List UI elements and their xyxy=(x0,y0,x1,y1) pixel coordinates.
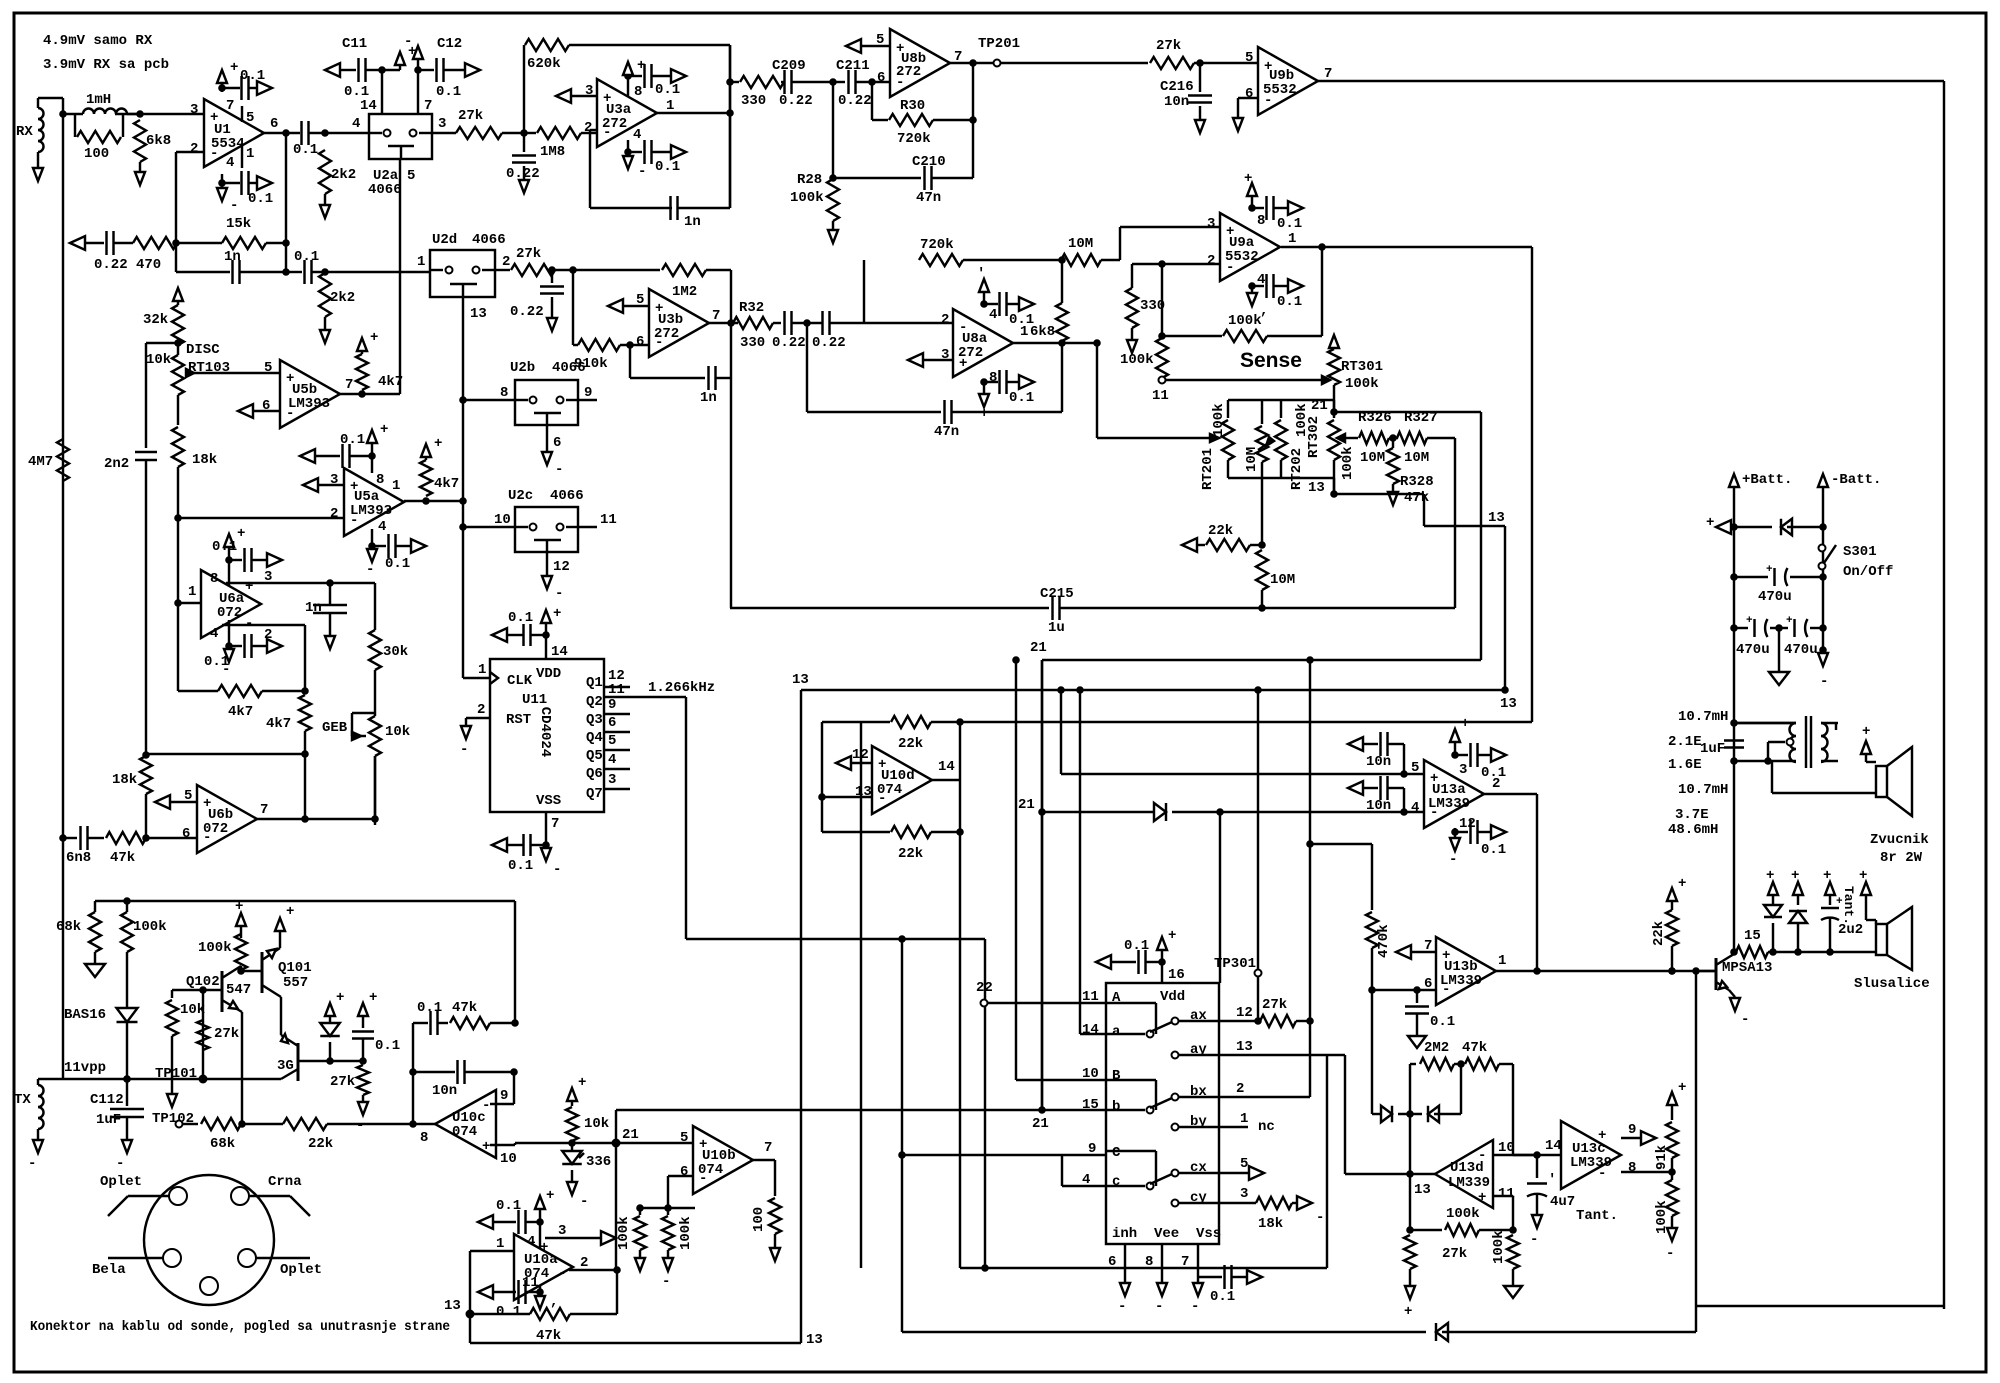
svg-text:+: + xyxy=(1478,1190,1486,1206)
TP102 label xyxy=(152,1111,194,1127)
rail y902 xyxy=(95,901,515,1023)
pin 1 out U13b xyxy=(1496,953,1716,971)
svg-text:-: - xyxy=(1118,1299,1126,1315)
svg-text:On/Off: On/Off xyxy=(1843,564,1893,580)
svg-text:R32: R32 xyxy=(739,300,764,316)
svg-text:47k: 47k xyxy=(536,1328,561,1344)
svg-text:BAS16: BAS16 xyxy=(64,1007,106,1023)
svg-text:+: + xyxy=(1706,515,1714,531)
svg-text:Tant.: Tant. xyxy=(1841,886,1856,925)
resistor 100k left xyxy=(121,897,167,1008)
svg-text:-: - xyxy=(553,862,561,878)
svg-text:+: + xyxy=(1168,928,1176,944)
node xyxy=(301,687,309,695)
svg-text:1n: 1n xyxy=(224,249,241,265)
resistor 15k xyxy=(222,216,286,249)
rail y1332 xyxy=(902,1331,1426,1333)
ground 0.1 U13b xyxy=(1408,1036,1426,1048)
svg-text:100k: 100k xyxy=(1345,376,1379,392)
U2b labels xyxy=(500,360,592,401)
svg-text:U2d: U2d xyxy=(432,232,457,248)
svg-text:GEB: GEB xyxy=(322,720,348,736)
node xyxy=(1457,1060,1465,1068)
cap 0.1 U8a bot xyxy=(984,370,1034,406)
svg-text:C216: C216 xyxy=(1160,79,1194,95)
svg-text:0.1: 0.1 xyxy=(655,82,680,98)
svg-text:1: 1 xyxy=(188,584,196,600)
svg-text:6: 6 xyxy=(636,334,644,350)
svg-text:+: + xyxy=(553,606,561,622)
svg-text:10n: 10n xyxy=(1366,798,1391,814)
U11 Q4 xyxy=(586,715,630,746)
svg-text:-: - xyxy=(460,742,468,758)
resistor R326 xyxy=(1358,410,1398,466)
svg-text:336: 336 xyxy=(586,1154,611,1170)
svg-text:8: 8 xyxy=(500,385,508,401)
svg-text:+: + xyxy=(434,436,442,452)
U2c ctl xyxy=(542,552,570,602)
svg-text:12: 12 xyxy=(1459,816,1476,832)
svg-text:22k: 22k xyxy=(898,846,923,862)
bus 21 down xyxy=(615,1143,617,1270)
resistor 27k U13d xyxy=(1404,1235,1467,1320)
U2a labels xyxy=(352,116,446,198)
svg-text:7: 7 xyxy=(1424,938,1432,954)
wire 2n2 branch xyxy=(146,343,178,448)
svg-text:+: + xyxy=(235,899,243,915)
U10c pin10 wire xyxy=(490,1143,517,1167)
svg-text:4M7: 4M7 xyxy=(28,454,53,470)
offpage arrow xyxy=(411,539,426,553)
svg-text:6: 6 xyxy=(877,70,885,86)
wire spk bottom xyxy=(1764,757,1876,793)
svg-text:470: 470 xyxy=(136,257,161,273)
power + C11 xyxy=(382,44,416,70)
svg-text:1u: 1u xyxy=(1048,620,1065,636)
node xyxy=(726,78,734,86)
svg-text:0.1: 0.1 xyxy=(1124,938,1149,954)
svg-text:68k: 68k xyxy=(210,1136,235,1152)
svg-text:B: B xyxy=(1112,1068,1121,1084)
svg-text:48.6mH: 48.6mH xyxy=(1668,822,1718,838)
wire xyxy=(1220,811,1404,813)
fb 1n U3b xyxy=(630,345,731,406)
op-amp U13a xyxy=(1424,760,1484,828)
resistor 27k ax xyxy=(1260,997,1310,1027)
node xyxy=(326,1057,334,1065)
svg-text:1mH: 1mH xyxy=(86,92,111,108)
label Tant rot xyxy=(1841,886,1856,925)
cap 0.1 U12 xyxy=(1096,938,1162,974)
cap 0.1 U1 top xyxy=(240,68,265,100)
resistor 10M xyxy=(1061,236,1120,266)
svg-text:1M8: 1M8 xyxy=(540,144,565,160)
pin 5 arrow U6b xyxy=(155,788,197,809)
pin 3 pwr U13a xyxy=(1450,716,1469,778)
svg-text:100k: 100k xyxy=(1446,1206,1480,1222)
resistor 6k8 xyxy=(134,120,171,172)
svg-text:2M2: 2M2 xyxy=(1424,1040,1449,1056)
feedback R30 xyxy=(872,82,973,147)
arrow out 3 xyxy=(601,1231,616,1245)
transistor MPSA13 xyxy=(1700,952,1772,1028)
resistor 10M sense xyxy=(1256,478,1295,608)
svg-text:3: 3 xyxy=(585,83,593,99)
node xyxy=(969,59,977,67)
pwr + Q102 100k xyxy=(235,899,246,938)
wiper RT301 xyxy=(1322,376,1334,412)
svg-text:C112: C112 xyxy=(90,1092,124,1108)
fb 4k7 U6a xyxy=(178,603,305,720)
svg-text:470u: 470u xyxy=(1736,642,1770,658)
wire out U8a xyxy=(1062,342,1097,344)
node xyxy=(136,110,144,118)
svg-text:547: 547 xyxy=(226,982,251,998)
node xyxy=(1668,1168,1676,1176)
pin8 pwr U8a xyxy=(979,370,997,422)
svg-text:7: 7 xyxy=(226,98,234,114)
svg-text:4u7: 4u7 xyxy=(1550,1194,1575,1210)
rail 21 bottom xyxy=(515,1142,572,1144)
svg-text:2: 2 xyxy=(502,254,510,270)
svg-text:4066: 4066 xyxy=(550,488,584,504)
pin4 pwr U5a xyxy=(366,519,386,578)
svg-text:+: + xyxy=(1766,868,1774,884)
note text xyxy=(43,33,169,73)
svg-text:100: 100 xyxy=(84,146,109,162)
pwr + U11 xyxy=(541,606,561,635)
svg-text:R327: R327 xyxy=(1404,410,1438,426)
svg-text:21: 21 xyxy=(1030,640,1047,656)
transistor Q102 547 xyxy=(186,966,251,1012)
resistor 470k xyxy=(1306,840,1392,990)
node xyxy=(282,133,290,272)
pin 5 U10b xyxy=(680,1130,688,1146)
svg-text:2: 2 xyxy=(941,312,949,328)
U2d labels xyxy=(417,232,510,322)
resistor 4k7 vert xyxy=(266,695,311,754)
U11 Q6 xyxy=(586,752,630,782)
arrow - TX xyxy=(28,1140,43,1172)
node xyxy=(1533,1151,1541,1159)
node xyxy=(238,1012,246,1128)
U2c labels xyxy=(494,488,617,528)
svg-text:272: 272 xyxy=(958,345,983,361)
resistor 1M2 xyxy=(662,264,731,300)
svg-text:6: 6 xyxy=(1245,86,1253,102)
resistor 10M par xyxy=(1244,400,1268,478)
wire xyxy=(115,113,204,115)
arrow cx xyxy=(1249,1166,1264,1180)
pin 7 out U3b xyxy=(709,308,738,324)
arrow - 100k U13c xyxy=(1666,1228,1677,1262)
U12 pin14 a xyxy=(1076,686,1121,1040)
IC U12 4053 xyxy=(1106,983,1219,1244)
svg-text:1uF: 1uF xyxy=(1700,741,1725,757)
node xyxy=(237,967,245,975)
node xyxy=(282,129,290,137)
pot GEB 10k xyxy=(369,713,410,825)
arrow + 22k xyxy=(1667,876,1686,901)
C215 row xyxy=(730,378,1455,636)
svg-text:Slusalice: Slusalice xyxy=(1854,976,1930,992)
xfmr tap circle xyxy=(1768,739,1794,762)
svg-text:1: 1 xyxy=(417,254,425,270)
pin 8 U13c xyxy=(1621,1160,1672,1176)
IC U11 CD4024 xyxy=(490,659,604,812)
svg-text:2k2: 2k2 xyxy=(330,290,355,306)
node xfmr top xyxy=(1730,719,1796,727)
svg-text:2: 2 xyxy=(1492,776,1500,792)
svg-text:4: 4 xyxy=(378,519,386,535)
pin 3 wire U6a xyxy=(226,569,375,585)
svg-text:7: 7 xyxy=(424,98,432,114)
cap 0.22 R32 xyxy=(772,311,822,351)
svg-text:47n: 47n xyxy=(934,424,959,440)
rail y939 xyxy=(686,935,985,1332)
svg-text:Sense: Sense xyxy=(1240,349,1302,372)
label 1.266kHz xyxy=(648,680,715,696)
U11 Q1 xyxy=(586,668,630,691)
wire 10M to U9a+ xyxy=(1120,227,1220,260)
node xyxy=(1058,339,1066,347)
pin 13 U10d xyxy=(822,784,872,800)
svg-text:2: 2 xyxy=(264,627,272,643)
node xyxy=(511,1019,519,1027)
svg-text:RT302: RT302 xyxy=(1306,416,1322,458)
pin 7 U13b xyxy=(1396,938,1436,959)
resistor 100k vert xyxy=(1120,338,1168,378)
resistor R28 100k xyxy=(790,172,839,230)
svg-text:100k: 100k xyxy=(1120,352,1154,368)
node 11vpp xyxy=(63,838,131,1083)
svg-text:13: 13 xyxy=(470,306,487,322)
svg-text:2n2: 2n2 xyxy=(104,456,129,472)
svg-text:1: 1 xyxy=(392,478,400,494)
node 21 diode row xyxy=(1018,660,1046,1110)
node xyxy=(321,129,329,137)
svg-text:5: 5 xyxy=(876,32,884,48)
svg-text:27k: 27k xyxy=(516,246,541,262)
resistor 22k sense xyxy=(1206,523,1262,551)
node xyxy=(1398,1110,1422,1118)
wire to RT301 xyxy=(1321,379,1323,381)
node xyxy=(956,828,964,836)
svg-text:3: 3 xyxy=(941,347,949,363)
pin 4 pwr U10a xyxy=(527,1188,554,1250)
svg-text:4: 4 xyxy=(210,626,218,642)
pin 8 pwr xyxy=(623,58,645,100)
wire 9C xyxy=(898,1151,1106,1159)
svg-text:22k: 22k xyxy=(898,736,923,752)
DIN pin3 xyxy=(108,1249,181,1267)
svg-text:0.1: 0.1 xyxy=(340,432,365,448)
svg-text:U2c: U2c xyxy=(508,488,533,504)
svg-text:13: 13 xyxy=(806,1332,823,1348)
svg-text:4: 4 xyxy=(1411,800,1419,816)
TP301 xyxy=(1214,686,1262,1021)
pin8 pwr U5a xyxy=(367,422,388,488)
svg-text:1n: 1n xyxy=(684,214,701,230)
cap 6n8 xyxy=(63,826,104,866)
svg-text:+: + xyxy=(370,330,378,346)
U2b pin8 wire xyxy=(459,396,515,404)
svg-text:Q6: Q6 xyxy=(586,766,603,782)
pots top rail xyxy=(1228,400,1334,412)
svg-text:072: 072 xyxy=(217,605,242,621)
speaker Slusalice xyxy=(1854,907,1930,992)
resistor 2k2 b xyxy=(319,273,355,330)
svg-text:R326: R326 xyxy=(1358,410,1392,426)
node xyxy=(321,268,329,276)
svg-text:620k: 620k xyxy=(527,56,561,72)
switch U2a 4066 xyxy=(369,114,432,159)
svg-text:074: 074 xyxy=(698,1162,723,1178)
wire 1309 row xyxy=(1692,967,1944,1332)
TP101 node xyxy=(63,1075,281,1084)
svg-text:+: + xyxy=(1766,564,1773,576)
pin 3 wire U10a xyxy=(545,1223,602,1239)
pin 6 U9b xyxy=(1238,86,1258,118)
svg-text:10n: 10n xyxy=(1164,94,1189,110)
svg-text:8: 8 xyxy=(989,370,997,386)
svg-text:272: 272 xyxy=(896,64,921,80)
svg-text:5: 5 xyxy=(264,360,272,376)
svg-text:LM339: LM339 xyxy=(1440,973,1482,989)
ground 100k U13d xyxy=(1504,1286,1522,1298)
resistor 2k2 xyxy=(319,150,356,205)
svg-text:14: 14 xyxy=(1082,1022,1099,1038)
svg-text:-: - xyxy=(1316,1210,1324,1226)
pin 2 U8a xyxy=(941,312,949,328)
pin 1 out xyxy=(657,98,730,114)
DIN labels xyxy=(92,1174,322,1278)
wire right bus xyxy=(1943,81,1945,1309)
svg-text:0.1: 0.1 xyxy=(1210,1289,1235,1305)
node xyxy=(1216,808,1224,983)
cap 0.1 U10a bot xyxy=(478,1280,540,1320)
svg-text:Q101: Q101 xyxy=(278,960,312,976)
svg-text:9: 9 xyxy=(500,1088,508,1104)
op-amp U1 xyxy=(204,99,264,167)
svg-text:6: 6 xyxy=(608,715,616,731)
svg-text:Q1: Q1 xyxy=(586,675,603,691)
svg-text:1: 1 xyxy=(478,662,486,678)
pin 1 out U5a xyxy=(392,478,463,501)
pin 4 xyxy=(222,155,234,183)
op-amp U13c xyxy=(1561,1121,1621,1189)
node xyxy=(301,750,309,758)
svg-text:0.1: 0.1 xyxy=(385,556,410,572)
svg-text:+Batt.: +Batt. xyxy=(1742,472,1792,488)
pin 5 U9b xyxy=(1245,50,1253,66)
svg-text:1.6E: 1.6E xyxy=(1668,757,1702,773)
LED 2 xyxy=(1789,868,1807,956)
svg-text:-: - xyxy=(1449,852,1457,868)
cap 0.1 row2 xyxy=(286,249,430,284)
svg-text:18k: 18k xyxy=(1258,1216,1283,1232)
svg-text:5: 5 xyxy=(184,788,192,804)
arrow - C112 xyxy=(116,1140,132,1172)
pin 12 U10d xyxy=(836,747,872,770)
svg-text:10M: 10M xyxy=(1270,572,1295,588)
svg-text:27k: 27k xyxy=(330,1074,355,1090)
svg-text:+: + xyxy=(336,990,344,1006)
svg-text:720k: 720k xyxy=(920,237,954,253)
cap 1n U6a xyxy=(305,583,347,636)
svg-text:0.1: 0.1 xyxy=(248,191,273,207)
svg-text:3: 3 xyxy=(1459,762,1467,778)
svg-text:-: - xyxy=(1191,1299,1199,1315)
svg-text:C211: C211 xyxy=(836,58,870,74)
svg-text:4k7: 4k7 xyxy=(228,704,253,720)
pin 2 wire U10a xyxy=(569,1255,621,1274)
cap C216 xyxy=(1160,63,1212,120)
cap 1n xyxy=(176,249,286,284)
svg-text:Zvucnik: Zvucnik xyxy=(1870,832,1929,848)
TX coil xyxy=(14,1079,63,1140)
pin 3 U9a xyxy=(1207,216,1215,232)
svg-text:4066: 4066 xyxy=(472,232,506,248)
svg-text:470k: 470k xyxy=(1376,924,1392,958)
arrow + 4th xyxy=(1859,868,1871,920)
cap 0.1 U5a bot xyxy=(372,534,412,572)
RX coil xyxy=(16,104,44,168)
svg-text:RX: RX xyxy=(16,124,33,140)
op-amp U3b xyxy=(649,289,709,357)
pin 14 wire xyxy=(360,70,382,114)
node xyxy=(520,129,528,137)
svg-text:-Batt.: -Batt. xyxy=(1831,472,1881,488)
node xyxy=(1400,808,1408,816)
node xyxy=(459,497,467,505)
pin 3 U8a xyxy=(908,347,953,367)
-Batt gnd xyxy=(1818,646,1828,690)
pin 1 wire U6a xyxy=(174,584,201,607)
resistor R328 47k xyxy=(1387,438,1434,506)
svg-text:TX: TX xyxy=(14,1092,31,1108)
wire spk2 xyxy=(1866,920,1876,924)
node xyxy=(1413,986,1421,994)
resistor 27k 3G xyxy=(330,1061,369,1102)
svg-text:10: 10 xyxy=(1498,1140,1515,1156)
pin 1 wire U10a xyxy=(470,1236,514,1314)
node 13 pots xyxy=(1308,480,1338,498)
svg-text:2: 2 xyxy=(580,1255,588,1271)
svg-text:1n: 1n xyxy=(305,600,322,616)
ground 1n xyxy=(325,636,335,649)
svg-text:0.1: 0.1 xyxy=(1277,294,1302,310)
node xyxy=(1318,243,1326,251)
svg-text:S301: S301 xyxy=(1843,544,1877,560)
resistor 100k Q102 xyxy=(198,934,247,971)
feedback node xyxy=(590,133,672,208)
svg-text:-: - xyxy=(555,462,563,478)
resistor 4k7 U5a xyxy=(420,436,459,496)
svg-text:-: - xyxy=(558,1266,566,1282)
offpage arrow xyxy=(1288,279,1303,293)
pin 12 pwr U13a xyxy=(1449,816,1476,868)
svg-text:0.1: 0.1 xyxy=(496,1198,521,1214)
svg-text:-: - xyxy=(638,164,646,180)
pin 6 arrow U5b xyxy=(238,398,280,418)
svg-text:14: 14 xyxy=(1545,1138,1562,1154)
pin 1 out U8a xyxy=(1013,324,1062,343)
svg-text:,: , xyxy=(550,1294,558,1310)
svg-text:2k2: 2k2 xyxy=(331,167,356,183)
svg-text:Vss: Vss xyxy=(1196,1226,1221,1242)
wire out U1 xyxy=(264,132,300,134)
